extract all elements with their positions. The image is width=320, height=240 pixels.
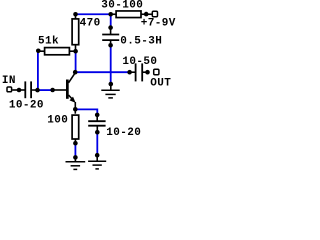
- wire choke bottom down to ground crossing collector wire: [110, 45, 112, 84]
- transistor Q1: [53, 73, 76, 110]
- resistor 100: [72, 109, 79, 143]
- wire base net: [38, 89, 53, 91]
- wire emitter to bypass cap: [75, 109, 97, 115]
- node choke top: [108, 25, 113, 30]
- svg-text:+7-9V: +7-9V: [141, 17, 176, 29]
- resistor 51k: [38, 48, 76, 55]
- svg-text:10-20: 10-20: [9, 100, 44, 112]
- wire top rail: [76, 13, 111, 15]
- svg-text:10-20: 10-20: [106, 127, 141, 139]
- node ground pin G3: [95, 153, 100, 158]
- ground G1: [101, 84, 119, 98]
- node out cap right: [145, 70, 150, 75]
- wire 51k left down to base node: [37, 51, 39, 90]
- node choke bottom: [108, 43, 113, 48]
- terminal OUT: [154, 69, 159, 74]
- capacitor 10-20 input: [19, 81, 38, 98]
- node bypass cap top: [95, 113, 100, 118]
- capacitor 10-20 bypass: [88, 115, 105, 132]
- node emitter: [73, 107, 78, 112]
- node 51k left: [36, 49, 41, 54]
- node 51k right 470 bottom: [73, 49, 78, 54]
- node IN pin: [17, 88, 22, 93]
- node rail junction: [108, 12, 113, 17]
- terminal +7-9V: [152, 11, 157, 16]
- svg-text:470: 470: [80, 18, 101, 30]
- inductor 0.5-3H plate symbol: [102, 28, 119, 46]
- node bypass cap bottom: [95, 130, 100, 135]
- ground G2: [66, 157, 86, 169]
- node out wire left: [127, 70, 132, 75]
- svg-text:10-50: 10-50: [122, 56, 157, 68]
- node collector: [73, 70, 78, 75]
- node ground pin G1: [109, 82, 114, 87]
- svg-text:0.5-3H: 0.5-3H: [120, 36, 162, 48]
- wire collector to out cap: [76, 71, 130, 73]
- svg-text:IN: IN: [2, 75, 16, 87]
- node base wire left: [35, 88, 40, 93]
- svg-text:100: 100: [47, 115, 68, 127]
- wire rail junction down to choke top: [110, 14, 112, 27]
- node ground pin G2: [73, 155, 78, 160]
- wire 100 to ground: [74, 143, 76, 157]
- svg-text:51k: 51k: [38, 36, 59, 48]
- svg-text:30-100: 30-100: [101, 0, 143, 12]
- node supply pin: [144, 12, 149, 17]
- terminal IN: [7, 87, 12, 92]
- resistor 470: [72, 14, 79, 51]
- ground G3: [88, 155, 106, 169]
- svg-text:OUT: OUT: [150, 78, 171, 90]
- node base pin: [50, 88, 55, 93]
- capacitor 10-50: [130, 63, 148, 81]
- wire 470 bottom down to collector node: [75, 51, 77, 72]
- node top of 470: [73, 12, 78, 17]
- wire IN lead: [12, 89, 19, 91]
- resistor 30-100: [111, 11, 152, 18]
- node 100 bottom: [73, 141, 78, 146]
- wire bypass cap to ground: [96, 132, 98, 155]
